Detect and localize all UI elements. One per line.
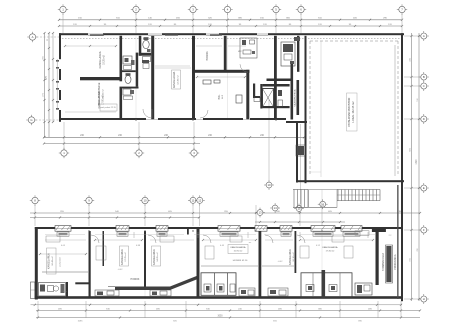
room label 6 bbox=[293, 89, 296, 107]
lower partition x=88 bbox=[89, 231, 91, 298]
grid bubble M1 (mid) bbox=[59, 148, 69, 158]
svg-text:G: G bbox=[30, 118, 32, 122]
lower band grid leaders bbox=[35, 205, 322, 226]
svg-text:10: 10 bbox=[143, 199, 147, 203]
partition wall x=153 bbox=[151, 36, 154, 120]
svg-text:11: 11 bbox=[192, 198, 195, 202]
lower partition x=260 bbox=[259, 231, 262, 298]
grid bubble L14 bbox=[264, 100, 274, 190]
kitchen block right bbox=[355, 231, 393, 283]
bottom dimension extra line bbox=[31, 304, 403, 306]
left dimension line 2 bbox=[46, 32, 54, 137]
elevator box bbox=[253, 84, 290, 109]
stair west wall bbox=[296, 121, 298, 183]
grid bubble L15 bbox=[294, 124, 304, 213]
svg-text:F: F bbox=[423, 228, 425, 232]
room label 1 bbox=[99, 51, 105, 68]
grid bubble 5 (top) bbox=[271, 4, 281, 14]
lower band radiators bbox=[57, 232, 360, 236]
mid horizontal wall left bbox=[80, 77, 122, 80]
misc leader dots bbox=[88, 119, 322, 231]
partition wall x=120 bbox=[120, 36, 123, 120]
fixtures lower room2 bbox=[95, 290, 119, 296]
grid bubble L8 bbox=[30, 195, 40, 205]
lower inner right wall bbox=[397, 185, 398, 299]
lower partition x=102 bbox=[103, 231, 105, 266]
svg-text:CAJNA KUHINJA: CAJNA KUHINJA bbox=[293, 89, 296, 107]
bathroom enclosure right bbox=[301, 270, 352, 298]
room label 3 bbox=[172, 70, 181, 89]
svg-text:KANCELARIJA: KANCELARIJA bbox=[48, 253, 51, 269]
grid bubble 3 (top) bbox=[188, 4, 198, 14]
upper building top wall bbox=[59, 33, 404, 38]
grid bubble 4 (top) bbox=[222, 4, 232, 14]
partition wall x=248 bbox=[246, 70, 249, 120]
svg-text:LOKAL 162.45 m2: LOKAL 162.45 m2 bbox=[351, 101, 355, 123]
svg-text:PRODAVNICA: PRODAVNICA bbox=[394, 254, 397, 269]
grid bubble 7 (top) bbox=[397, 4, 407, 14]
closet wall lower-left bbox=[66, 282, 89, 298]
wc cell walls bbox=[120, 53, 139, 89]
lower room label 1 bbox=[47, 248, 62, 274]
partition wall x=193 bbox=[192, 36, 195, 120]
elevator fixtures bbox=[281, 37, 300, 66]
svg-text:HOL: HOL bbox=[218, 94, 221, 100]
mid horizontal wall center bbox=[195, 70, 293, 87]
svg-text:KANCELARIJA: KANCELARIJA bbox=[231, 246, 246, 249]
top dimension line 2 bbox=[58, 24, 403, 27]
interior dim marks lower bbox=[39, 239, 374, 255]
svg-text:1320: 1320 bbox=[416, 159, 418, 165]
grid bubble M2 (mid) bbox=[134, 148, 144, 158]
svg-text:1085: 1085 bbox=[78, 321, 84, 323]
svg-text:16: 16 bbox=[321, 202, 325, 206]
svg-text:KANCELARIJA: KANCELARIJA bbox=[173, 71, 176, 88]
lower building top wall bbox=[35, 227, 401, 229]
svg-text:A: A bbox=[423, 34, 425, 38]
door arc lower 4 bbox=[265, 235, 305, 243]
lower corridor label bbox=[131, 260, 249, 281]
upper building bottom wall bbox=[59, 118, 286, 120]
right dim tiny numbers bbox=[409, 57, 419, 261]
svg-text:10: 10 bbox=[267, 183, 271, 187]
bottom dimension leaders bbox=[38, 301, 401, 318]
grid bubble F (right) bbox=[419, 225, 429, 235]
svg-text:WC: WC bbox=[238, 51, 242, 53]
svg-text:17.25 m2: 17.25 m2 bbox=[125, 252, 127, 262]
partition wall x=275 bbox=[274, 36, 277, 120]
lower partition x=145 bbox=[144, 231, 146, 289]
grid bubble 6 (top) bbox=[296, 4, 306, 14]
svg-text:15.90 m2: 15.90 m2 bbox=[234, 251, 244, 253]
svg-text:KANCELARIJA: KANCELARIJA bbox=[153, 249, 156, 265]
svg-text:D: D bbox=[423, 117, 425, 121]
small fixtures mid bbox=[203, 80, 283, 107]
svg-text:14: 14 bbox=[274, 206, 278, 210]
svg-text:HODNIK: HODNIK bbox=[131, 279, 140, 281]
wc fixture center bbox=[142, 60, 191, 69]
svg-text:16.10 m2: 16.10 m2 bbox=[293, 252, 295, 262]
big room left wall bbox=[305, 36, 307, 183]
svg-text:B: B bbox=[423, 75, 425, 79]
fixtures lower room4 bbox=[239, 288, 255, 296]
svg-text:STAMBENI ULAZ: STAMBENI ULAZ bbox=[382, 252, 385, 271]
elevator shaft wall bbox=[297, 36, 300, 115]
big room inner dashed outline bbox=[310, 41, 398, 176]
svg-text:22.15 m2: 22.15 m2 bbox=[102, 89, 104, 99]
door arc lower 1 bbox=[91, 235, 99, 243]
big room label bbox=[347, 93, 358, 131]
svg-text:-0.02: -0.02 bbox=[118, 269, 124, 271]
grid bubble A (right) bbox=[419, 31, 429, 41]
grid bubble H (right) bbox=[419, 294, 429, 304]
svg-text:H: H bbox=[423, 297, 425, 301]
bathroom fixtures lower-left bbox=[39, 283, 66, 297]
stair landing floor bbox=[309, 190, 338, 208]
lower window ticks bbox=[134, 232, 368, 238]
upper building left wall bbox=[56, 33, 61, 122]
bottom dimension line 2 bbox=[36, 315, 420, 322]
room label 2 bbox=[98, 91, 104, 108]
grid bubble L12 bbox=[195, 195, 205, 205]
grid bubble M3 (mid) bbox=[189, 148, 199, 158]
svg-text:E: E bbox=[423, 186, 425, 190]
building right wall bbox=[401, 33, 403, 301]
grid bubble L16 bbox=[318, 199, 328, 209]
stair column bbox=[296, 145, 305, 156]
svg-text:17.30 m2: 17.30 m2 bbox=[326, 251, 336, 253]
lower building window sills bbox=[55, 226, 362, 232]
stair flight 2 bbox=[337, 190, 380, 201]
fixtures lower room3 bbox=[150, 290, 171, 296]
grid bubble G (left) bbox=[26, 115, 59, 125]
grid column lines lower bbox=[89, 231, 322, 297]
lower room label 3 bbox=[152, 245, 249, 267]
svg-text:pod parket: pod parket bbox=[59, 257, 62, 267]
lower band furniture bbox=[46, 236, 353, 260]
room label 7 bbox=[218, 94, 224, 100]
grid bubble L10 bbox=[140, 195, 150, 205]
bathroom top center bbox=[240, 38, 257, 58]
kitchen fixtures room2 bbox=[123, 73, 134, 99]
svg-text:14.65 m2: 14.65 m2 bbox=[157, 252, 159, 262]
grid bubble E (right) bbox=[419, 183, 429, 193]
svg-text:KANCELARIJA: KANCELARIJA bbox=[99, 51, 102, 68]
door arc lower 3 bbox=[203, 235, 211, 243]
bathroom fixtures top-left bbox=[143, 37, 151, 61]
lower band dimension line 2 bbox=[30, 216, 345, 223]
grid bubble C (right) bbox=[419, 81, 429, 91]
svg-text:SALA ZA SASTANKE: SALA ZA SASTANKE bbox=[98, 82, 101, 105]
door arc upper 2 bbox=[200, 110, 208, 118]
room label 5 bbox=[206, 51, 242, 61]
grid bubble L11 bbox=[188, 195, 198, 205]
lower band tiny texts bbox=[61, 235, 392, 293]
partition wall x=292 bbox=[291, 64, 294, 120]
right dimension line 1 bbox=[410, 33, 412, 301]
svg-text:-0.02: -0.02 bbox=[278, 261, 284, 263]
grid bubble L9 bbox=[84, 195, 94, 205]
right dimension line 2 bbox=[416, 33, 420, 301]
door arc upper 1 bbox=[143, 109, 152, 118]
svg-text:KANCELARIJA: KANCELARIJA bbox=[323, 246, 338, 249]
svg-text:pod: parket 22.15: pod: parket 22.15 bbox=[100, 106, 116, 109]
svg-text:13: 13 bbox=[258, 211, 262, 215]
lower partition x=377 bbox=[372, 229, 386, 285]
upper building bottom wall step bbox=[286, 121, 307, 123]
top grid leader lines bbox=[63, 14, 402, 33]
porch step bottom-left bbox=[31, 282, 35, 299]
grid bubble A (left) bbox=[27, 32, 59, 42]
door arc lower 2 bbox=[148, 235, 156, 243]
stair flight 1 bbox=[293, 190, 337, 208]
bottom dimension line 1 bbox=[36, 308, 421, 311]
fixtures lower right bbox=[355, 283, 372, 295]
grid bubble 2 (top) bbox=[131, 4, 141, 14]
top dimension line 1 bbox=[58, 18, 403, 21]
lower band dimension line bbox=[30, 211, 421, 214]
lower building left wall bbox=[35, 227, 38, 300]
lower partition x=198 bbox=[187, 227, 200, 298]
lower band inner dim lines bbox=[45, 234, 376, 236]
svg-text:C: C bbox=[423, 84, 425, 88]
big room bottom wall bbox=[296, 180, 404, 182]
svg-text:kuh.: kuh. bbox=[63, 291, 67, 293]
lower partition x=295 bbox=[295, 231, 297, 273]
svg-text:HODNIK: HODNIK bbox=[206, 51, 209, 61]
lower room label 2 bbox=[120, 246, 129, 266]
svg-text:3050: 3050 bbox=[217, 315, 223, 317]
grid bubble D (right) bbox=[419, 114, 429, 124]
grid bubble 1 (top) bbox=[58, 4, 68, 14]
svg-text:12: 12 bbox=[198, 198, 202, 202]
svg-text:16.40 m2: 16.40 m2 bbox=[52, 256, 54, 266]
bathroom enclosure center bbox=[201, 273, 236, 296]
grid bubble B (right) bbox=[419, 72, 429, 82]
svg-text:18.25 m2: 18.25 m2 bbox=[103, 54, 105, 64]
svg-text:A: A bbox=[32, 35, 34, 39]
right grid leader lines bbox=[404, 36, 420, 299]
interior dim marks upper bbox=[64, 45, 246, 112]
partition wall x=226 bbox=[224, 36, 227, 72]
svg-text:wc: wc bbox=[249, 242, 251, 244]
radiator marks top band bbox=[90, 34, 222, 35]
room label 4 bbox=[98, 82, 117, 111]
left dim tiny numbers bbox=[42, 38, 49, 97]
mid dimension line 2 bbox=[43, 142, 200, 144]
lower building bottom wall bbox=[35, 296, 401, 299]
svg-text:12.40 m2: 12.40 m2 bbox=[177, 75, 179, 85]
kitchen fixtures room1 bbox=[123, 56, 135, 70]
bathroom box walls bbox=[139, 36, 151, 56]
mid dimension line 1 bbox=[43, 135, 305, 138]
svg-text:HODNIK 42.16: HODNIK 42.16 bbox=[233, 260, 248, 262]
door arc upper 3 bbox=[240, 64, 248, 72]
svg-text:POSLOVNI PROSTOR: POSLOVNI PROSTOR bbox=[347, 98, 351, 127]
grid bubble L13 bbox=[255, 203, 280, 217]
corridor ramp wall bbox=[108, 276, 197, 290]
left dimension line 1 bbox=[43, 32, 45, 138]
lower corridor wall bbox=[42, 266, 294, 272]
grid column lines upper bbox=[136, 36, 276, 120]
svg-text:KANCELARIJA: KANCELARIJA bbox=[289, 249, 292, 265]
fixtures lower room5 bbox=[268, 288, 288, 296]
mid grid leaders bbox=[64, 122, 194, 149]
svg-text:KANCELARIJA: KANCELARIJA bbox=[121, 249, 124, 265]
lower room label 5 bbox=[382, 252, 397, 271]
big room interior line bbox=[310, 41, 321, 177]
lower room label 4 bbox=[289, 246, 338, 265]
partition wall x=285 bbox=[0, 0, 1, 1]
